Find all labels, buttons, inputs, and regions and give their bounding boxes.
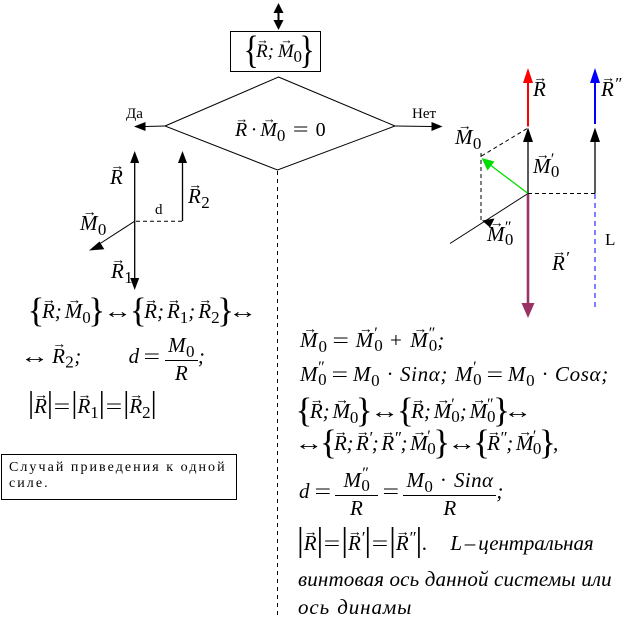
double-headed arrow above box <box>274 3 284 30</box>
right diagram label L <box>605 230 615 250</box>
left diagram: dashed d line <box>136 220 183 222</box>
label Нет <box>412 106 436 123</box>
right diagram: black vector M0' up from center <box>523 128 533 194</box>
left diagram label M0 <box>80 213 107 234</box>
right formula line 3 <box>298 401 528 422</box>
left formula line 1 <box>30 301 253 322</box>
right diagram: dashed parallelogram left side <box>480 153 482 221</box>
right diagram label R'' (blue arrow) <box>601 79 622 100</box>
right formula line 2 <box>300 364 609 385</box>
left diagram: vector R up / R1 down line <box>130 151 139 290</box>
right formula line 1 <box>300 330 445 351</box>
left diagram label R <box>110 167 123 188</box>
right formula line 7 <box>298 569 612 590</box>
right diagram label M0'' <box>487 224 513 245</box>
right formula line 5 (fractions) <box>299 470 504 519</box>
right diagram label R (red arrow) <box>533 79 546 100</box>
right diagram: black arrow up at L axis <box>590 128 600 194</box>
right diagram label R' <box>552 253 569 274</box>
right diagram: purple vector R' down <box>522 194 535 318</box>
right diagram: green vector M0 <box>482 158 529 194</box>
right diagram: M0'' diagonal axis with arrowhead <box>450 194 528 244</box>
right diagram: blue vector R'' <box>590 68 600 124</box>
box {R;M0} border <box>231 32 321 72</box>
right diagram: dashed horizontal center to L axis <box>528 193 595 195</box>
label Да <box>126 106 143 123</box>
left diagram: vector R2 line <box>178 151 187 221</box>
left diagram: vector M0 diagonal arrow <box>89 221 135 250</box>
diamond text R·M0=0 <box>235 120 326 140</box>
right diagram: dashed parallelogram top side <box>482 128 529 156</box>
central dashed line from diamond bottom <box>277 171 279 615</box>
right formula line 4 <box>298 433 558 454</box>
wire Да arrow (left) <box>134 122 165 131</box>
right diagram: blue dashed L axis <box>594 194 596 308</box>
right diagram label M0 <box>455 127 482 148</box>
left formula line 3 <box>28 396 157 417</box>
case text box <box>1 454 237 500</box>
right formula line 8 <box>298 597 412 618</box>
diamond decision R·M0=0 <box>165 77 395 170</box>
right diagram label M0' <box>533 156 559 177</box>
right formula line 6 <box>297 533 594 554</box>
box text {R;M0} <box>246 42 312 61</box>
right diagram: red vector R <box>523 68 533 127</box>
left diagram label R1 <box>111 261 133 282</box>
left diagram label R2 <box>188 186 210 207</box>
left diagram label d <box>155 202 163 219</box>
left formula line 2 <box>24 335 205 384</box>
wire Нет arrow (right) <box>395 122 443 131</box>
